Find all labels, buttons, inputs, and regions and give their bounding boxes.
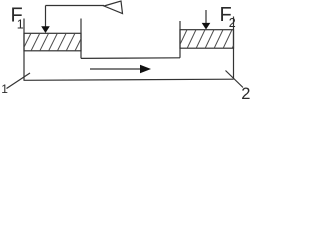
left cylinder right wall — [80, 19, 82, 59]
connecting channel top — [81, 57, 180, 60]
level symbol triangle — [104, 1, 123, 14]
flow arrow — [90, 68, 141, 70]
node 2 leader — [226, 71, 244, 88]
left piston — [24, 33, 81, 51]
right cylinder left wall — [179, 21, 181, 58]
force F2 arrow — [205, 10, 207, 24]
right piston — [180, 30, 234, 49]
node 1 leader — [7, 73, 31, 89]
vessel bottom — [24, 79, 234, 80]
left cylinder left wall — [23, 19, 25, 81]
svg-text:1: 1 — [1, 82, 8, 96]
svg-text:1: 1 — [17, 18, 24, 32]
force F1 arrow — [45, 6, 47, 28]
liquid level line — [46, 5, 105, 7]
right cylinder right wall — [233, 17, 235, 80]
svg-text:2: 2 — [229, 16, 236, 30]
